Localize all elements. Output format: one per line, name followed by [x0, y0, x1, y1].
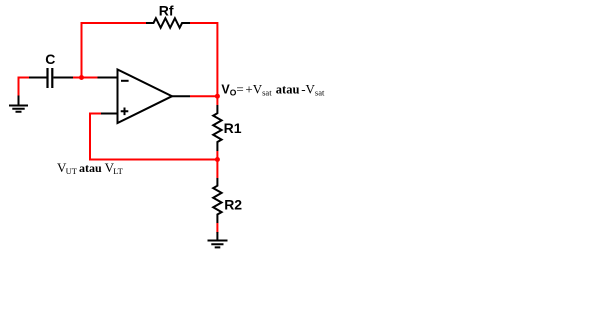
op-amp U1 non-inverting input lead [101, 113, 118, 115]
node B junction dot [215, 157, 220, 162]
capacitor C plates [48, 68, 53, 88]
wire: capacitor to inverting input (node A) [73, 77, 98, 79]
capacitor C left lead [29, 77, 47, 79]
resistor R2 (vertical, with black leads) [213, 178, 221, 223]
wire: feedback top net, left vertical from node A up to Rf row [82, 23, 147, 78]
wire: node B down to R2 top lead [216, 160, 218, 179]
wire: node Vo down to R1 top lead [216, 96, 218, 105]
capacitor C right lead [53, 77, 73, 79]
resistor R1 (vertical, with black leads) [213, 105, 221, 151]
svg-text:Rf: Rf [159, 2, 174, 18]
op-amp U1 triangle [118, 70, 173, 124]
node Vo junction dot [215, 94, 220, 99]
op-amp U1 inverting input lead [98, 77, 118, 79]
wire: R2 bottom lead to ground [216, 223, 218, 233]
op-amp U1 output lead [171, 95, 190, 97]
ground GND1 symbol [9, 96, 28, 112]
svg-text:R2: R2 [224, 197, 242, 213]
wire: feedback divider tap to non-inverting input [90, 114, 216, 160]
wire: output lead to node Vo [190, 95, 217, 97]
op-amp U1 minus marker [121, 80, 129, 82]
wire: R1 bottom lead to node B [216, 151, 218, 160]
wire: Rf right lead to output column, down to output node [190, 23, 217, 95]
ground GND2 symbol (bottom) [208, 232, 228, 247]
resistor Rf (horizontal, with black leads) [146, 18, 190, 28]
svg-text:C: C [45, 51, 55, 67]
svg-text:R1: R1 [224, 120, 242, 136]
op-amp U1 plus marker [121, 108, 129, 116]
ground GND1 stem (left) [18, 78, 20, 106]
node A junction dot [79, 75, 84, 80]
wire: ground to capacitor left lead [18, 77, 30, 79]
